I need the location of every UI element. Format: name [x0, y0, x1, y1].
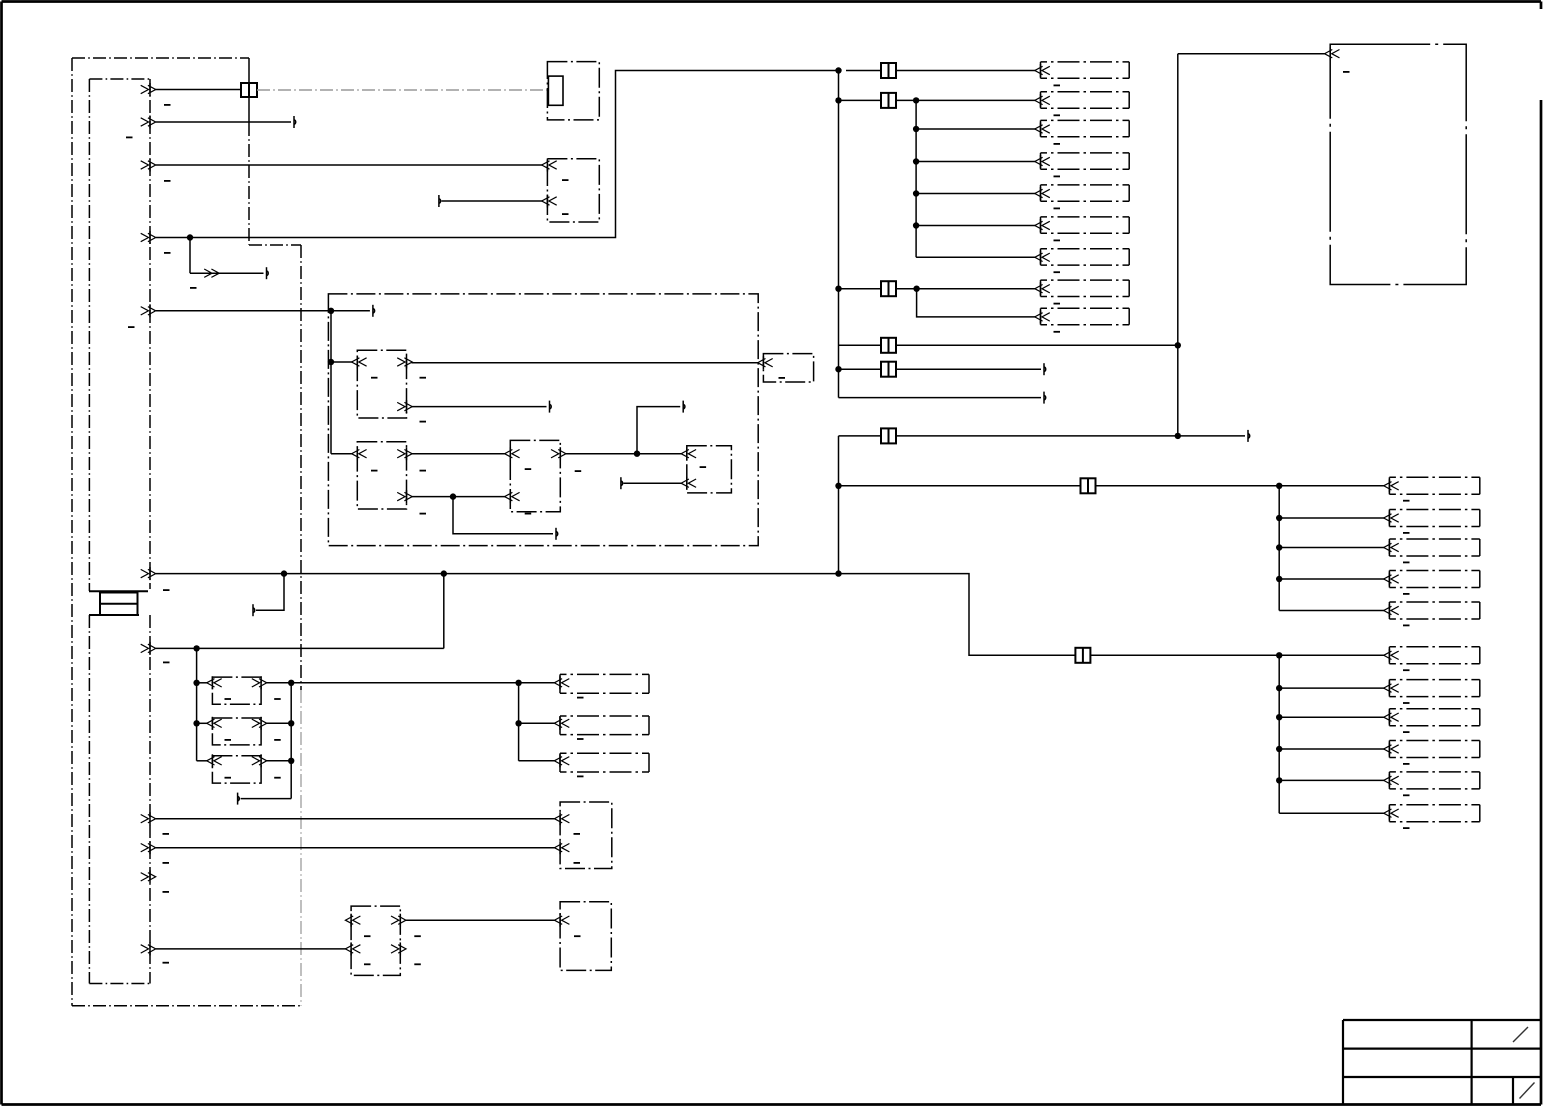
node on riser — [1175, 342, 1181, 348]
socket on K2 input — [352, 447, 367, 460]
module A1 inner block — [548, 76, 563, 105]
wire label L11 — [163, 891, 170, 893]
wire to load C16 — [1276, 685, 1384, 691]
bus junction B3 — [835, 286, 841, 292]
wire F4 to riser node — [896, 344, 1178, 346]
wire K1 output1 to module A3 — [412, 362, 759, 364]
label right of K3 — [575, 470, 582, 472]
long feed wire P6 (to lower bus) — [156, 573, 839, 575]
label under C13 — [1403, 593, 1410, 595]
wire bus to fuse F8 — [839, 485, 1081, 487]
wire K3 output to module K4 — [565, 453, 682, 455]
socket on K4 input 1 — [681, 447, 696, 460]
wire K1 output2 to terminator — [412, 401, 552, 413]
connector pin P7 on harness W2 — [141, 642, 156, 655]
relay K3 (dash-dot box) — [510, 440, 560, 511]
wire to load C20 — [1279, 812, 1384, 814]
wire to load C19 — [1276, 777, 1384, 783]
relay outputs tie wire — [266, 680, 555, 799]
relay tie branch to terminator — [238, 793, 292, 805]
terminal block G1 (battery style symbol on harness edge) — [89, 591, 148, 615]
load C3 (dash-dot connector box) — [1035, 120, 1129, 136]
node D2 — [913, 286, 919, 292]
signature slash row1 — [1513, 1027, 1528, 1042]
actuator M1 (dash-dot box) — [554, 902, 611, 971]
plug on K1 output 1 — [397, 356, 412, 369]
socket on A4 — [1325, 47, 1340, 60]
node D4 — [1276, 652, 1282, 658]
fuse F7 — [1075, 648, 1090, 663]
module A3 (small box at control enclosure edge) — [763, 354, 813, 382]
relay feeder drop — [193, 648, 207, 760]
stub from node N1 to terminator — [331, 305, 375, 317]
load C8 (dash-dot connector box) — [1035, 280, 1129, 296]
junction riser/F6 wire — [1175, 433, 1181, 439]
wire F6 across to terminator — [896, 430, 1250, 442]
fuse F8 — [1081, 478, 1096, 493]
load C7 (dash-dot connector box) — [1035, 249, 1129, 265]
module A4 (large dash-dot box top right) — [1330, 44, 1466, 284]
load C20 (dash-dot connector box) — [1384, 805, 1480, 822]
label in K6 — [225, 739, 232, 741]
wire label L5 — [190, 287, 197, 289]
label under E2 — [577, 738, 584, 740]
junction on P6 wire — [281, 570, 287, 576]
junction P6/P7 tie — [441, 570, 447, 576]
label under C2 — [1054, 114, 1061, 116]
wire label L10 — [163, 862, 170, 864]
connector pin P3 on harness W2 — [141, 159, 156, 172]
load C13 (dash-dot connector box) — [1384, 571, 1480, 588]
distribution riser to lamps — [515, 680, 555, 761]
wire to load C3 — [913, 126, 1036, 132]
label in A3 — [779, 377, 786, 379]
riser wire to module A4 — [1178, 54, 1325, 436]
wire P11 to switch S1 — [156, 948, 346, 950]
label in S1 row2 — [364, 963, 371, 965]
wire F2 to distribution node — [896, 99, 916, 101]
load C14 (dash-dot connector box) — [1384, 602, 1480, 619]
label in K7 — [225, 777, 232, 779]
label under C11 — [1403, 532, 1410, 534]
label in K2 — [371, 470, 378, 472]
plug on K2 output 1 — [397, 447, 412, 460]
plug on K2 output 2 — [397, 490, 412, 503]
fuse F3 — [881, 281, 896, 296]
load C19 (dash-dot connector box) — [1384, 772, 1480, 789]
junction on wire P4 — [187, 234, 193, 240]
bus junction B1 — [835, 67, 841, 73]
tie wire between P6 and P7 rows — [443, 574, 445, 649]
stub wire to A2 socket J2 — [439, 195, 543, 207]
supply bus (vertical) — [838, 71, 840, 398]
fuse F4 — [881, 338, 896, 353]
wire D4 to load C15 — [1279, 654, 1384, 656]
wire P2 to end terminator — [156, 116, 296, 128]
fuse F6 — [881, 428, 896, 443]
label under C4 — [1054, 176, 1061, 178]
label under C3 — [1054, 143, 1061, 145]
wire to load C11 — [1276, 515, 1384, 521]
connector pin P4 on harness W2 — [141, 231, 156, 244]
junction on P7 — [193, 645, 199, 651]
junction node N1 — [328, 308, 334, 314]
socket on K4 input 2 — [681, 477, 696, 490]
wire P7 feed — [156, 647, 444, 649]
label right of K1 pin1 — [420, 377, 427, 379]
inline connector X0 (square) — [241, 83, 257, 97]
harness enclosure W2 (inner dash-dot box) — [89, 79, 150, 984]
wire K2 output1 to K3 — [412, 453, 506, 455]
label under C14 — [1403, 625, 1410, 627]
wire to load C6 — [913, 222, 1036, 228]
socket on K5 — [207, 676, 222, 689]
label right of K6 — [274, 739, 281, 741]
relay K6 (small dash-dot box) — [212, 718, 261, 745]
wire label L3 — [164, 180, 171, 182]
lamp unit E1 (dash-dot box) — [554, 674, 649, 693]
module K4 (dash-dot box) — [687, 446, 732, 493]
label right of K2 pin2 — [420, 513, 427, 515]
socket J1 on A2 — [542, 159, 557, 172]
wire to load C4 — [913, 158, 1036, 164]
bus junction B2 — [835, 97, 841, 103]
wire to load C14 — [1279, 610, 1384, 612]
connector pin P5 on harness W2 — [141, 304, 156, 317]
supply wire P4 to bus (up and over) — [156, 71, 839, 238]
wire bus to fuse F5 — [839, 368, 882, 370]
label under C9 — [1054, 331, 1061, 333]
junction node N2 — [450, 493, 456, 499]
connector pin P1 on harness W2 — [141, 83, 156, 96]
wire D1 to load C2 — [916, 99, 1035, 101]
wire label L1 — [164, 104, 171, 106]
label under C7 — [1054, 271, 1061, 273]
load C6 (dash-dot connector box) — [1035, 217, 1129, 233]
label right of S1 row1 — [414, 935, 421, 937]
wire label L7 — [163, 589, 170, 591]
socket on A3 — [758, 356, 773, 369]
label in K3 — [525, 468, 532, 470]
label in K1 — [371, 377, 378, 379]
label under C12 — [1403, 562, 1410, 564]
lamp unit E2 (dash-dot box) — [554, 716, 649, 735]
plug on K7 — [252, 754, 267, 767]
wire pin P1 to connector X0 — [155, 89, 241, 91]
label in sensor B1 pin2 — [574, 862, 581, 864]
load C18 (dash-dot connector box) — [1384, 741, 1480, 758]
label right of K1 pin2 — [420, 421, 427, 423]
wire label L2 — [126, 137, 133, 139]
wire F7 to distribution node D4 — [1090, 654, 1279, 656]
wire label L8 — [163, 662, 170, 664]
branch N3 up to terminator — [637, 401, 685, 454]
relay K2 (dash-dot box) — [357, 442, 406, 509]
screened link X0 to module A1 (gray dash-dot) — [257, 89, 548, 91]
load C11 (dash-dot connector box) — [1384, 510, 1480, 527]
label below K3 — [525, 513, 532, 515]
wire P3 to A2 socket J1 — [156, 164, 543, 166]
socket on K3 input 2 — [505, 490, 520, 503]
module A2 (dash-dot outline) — [547, 159, 599, 222]
wire K2 output2 to K3 lower socket — [412, 496, 506, 498]
plug on K6 — [252, 717, 267, 730]
plug on K3 output — [551, 447, 566, 460]
label in M1 — [574, 935, 581, 937]
label under E1 — [577, 697, 584, 699]
label under C10 — [1403, 500, 1410, 502]
drop and wire to load C9 — [917, 289, 1036, 317]
label under C16 — [1403, 702, 1410, 704]
relay K1 (dash-dot box) — [357, 350, 406, 418]
control unit enclosure (large dash-dot box) — [328, 294, 758, 546]
label under C8 — [1054, 303, 1061, 305]
load C4 (dash-dot connector box) — [1035, 153, 1129, 169]
label on A2 pin 1 — [562, 179, 569, 181]
junction lower bus top — [835, 570, 841, 576]
socket on K6 — [207, 717, 222, 730]
wire to load C18 — [1276, 746, 1384, 752]
title block — [1343, 1020, 1541, 1105]
junction node N3 — [634, 451, 640, 457]
wire lower bus to fuse F6 — [839, 435, 882, 437]
wire bus to fuse F4 — [839, 344, 882, 346]
wire to load C17 — [1276, 714, 1384, 720]
load C5 (dash-dot connector box) — [1035, 185, 1129, 201]
bus bottom branch to terminator — [839, 392, 1046, 404]
wire label L9 — [163, 833, 170, 835]
label right of K7 — [274, 777, 281, 779]
wire F3 to node D2 — [896, 288, 917, 290]
wire D3 to load C10 — [1279, 485, 1384, 487]
load C9 (dash-dot connector box) — [1035, 308, 1129, 324]
label in K4 — [700, 466, 707, 468]
wire label L12 — [163, 962, 170, 964]
wire to load C5 — [913, 190, 1036, 196]
branch to terminator under P6 — [253, 574, 284, 617]
label under C15 — [1403, 669, 1410, 671]
sensor unit B1 (dash-dot box) — [554, 802, 611, 869]
wire F8 to distribution node D3 — [1096, 485, 1280, 487]
lamp unit E3 (dash-dot box) — [554, 753, 649, 772]
load C17 (dash-dot connector box) — [1384, 709, 1480, 726]
bus junction B5 — [835, 483, 841, 489]
load C12 (dash-dot connector box) — [1384, 539, 1480, 556]
load C2 (dash-dot connector box) — [1035, 92, 1129, 108]
connector pin P2 on harness W2 — [141, 116, 156, 129]
label in sensor B1 pin1 — [574, 833, 581, 835]
plug on K5 — [252, 676, 267, 689]
wire to load C13 — [1276, 576, 1384, 582]
wire P8 to sensor unit — [156, 818, 555, 820]
branch with inline connector X4 and terminator — [190, 238, 268, 280]
wire label L6 — [128, 326, 135, 328]
label under C1 — [1054, 85, 1061, 87]
wire P9 to sensor unit — [156, 847, 555, 849]
signature slash row3 — [1520, 1083, 1535, 1099]
plug on K1 output 2 — [397, 400, 412, 413]
wire bus to fuse F3 — [839, 288, 882, 290]
wire F1 input — [846, 70, 881, 72]
label under C20 — [1403, 827, 1410, 829]
inline connector X4 (chevron) — [204, 269, 219, 277]
fuse F2 — [881, 93, 896, 108]
wire to load C7 — [916, 256, 1035, 258]
wire label L4 — [164, 252, 171, 254]
module A1 (dash-dot outline) — [547, 62, 599, 120]
label in A4 — [1343, 71, 1350, 73]
fuse F5 — [881, 362, 896, 377]
distribution drop wire — [915, 100, 917, 257]
connector pin P6 on harness W2 — [141, 567, 156, 580]
wire F5 to terminator — [896, 363, 1046, 375]
node D3 — [1276, 483, 1282, 489]
label under E3 — [577, 776, 584, 778]
label right of K5 — [274, 698, 281, 700]
label in K5 — [225, 698, 232, 700]
wire to load C12 — [1276, 544, 1384, 550]
label under C6 — [1054, 240, 1061, 242]
label right of K2 pin1 — [420, 470, 427, 472]
label under C18 — [1403, 763, 1410, 765]
socket on K3 input 1 — [505, 447, 520, 460]
connector pin P9 on harness W2 — [141, 841, 156, 854]
wire P5 into control enclosure — [156, 310, 331, 312]
branch N2 to terminator — [453, 497, 558, 540]
label under C5 — [1054, 208, 1061, 210]
harness enclosure W1 (outer dash-dot box) — [72, 58, 301, 1006]
distribution drop D3 — [1278, 486, 1280, 611]
label under C19 — [1403, 794, 1410, 796]
label under C17 — [1403, 731, 1410, 733]
load C16 (dash-dot connector box) — [1384, 680, 1480, 697]
wire bus to fuse F2 — [839, 99, 882, 101]
wire D2 to load C8 — [917, 288, 1036, 290]
load C15 (dash-dot connector box) — [1384, 647, 1480, 664]
label right of S1 row2 — [414, 963, 421, 965]
wire S1 to actuator M1 — [405, 919, 555, 921]
distribution node D1 — [913, 97, 919, 103]
connector pin P8 on harness W2 — [141, 812, 156, 825]
label in S1 row1 — [364, 935, 371, 937]
relay K5 (small dash-dot box) — [212, 677, 261, 704]
socket on K1 input — [352, 356, 367, 369]
bus junction B4 — [835, 366, 841, 372]
label on A2 pin 2 — [562, 213, 569, 215]
wire bus over and down to fuse F7 — [839, 574, 1076, 656]
stub terminator to K4 input 2 — [621, 477, 682, 489]
distribution drop D4 — [1278, 655, 1280, 813]
connector pin P10 on harness W2 — [141, 870, 156, 883]
socket J2 on A2 — [542, 195, 557, 208]
load C10 (dash-dot connector box) — [1384, 477, 1480, 494]
lower bus (vertical) — [838, 436, 840, 574]
fuse F1 — [881, 63, 896, 78]
socket on K7 — [207, 754, 222, 767]
switch S1 (dash-dot box) — [345, 906, 406, 975]
connector pin P11 on harness W2 — [141, 942, 156, 955]
wire F1 to load C1 — [896, 70, 1036, 72]
relay K7 (small dash-dot box) — [212, 756, 261, 783]
load C1 (dash-dot connector box) — [1035, 62, 1129, 78]
drop wire from node N1 — [328, 311, 353, 454]
